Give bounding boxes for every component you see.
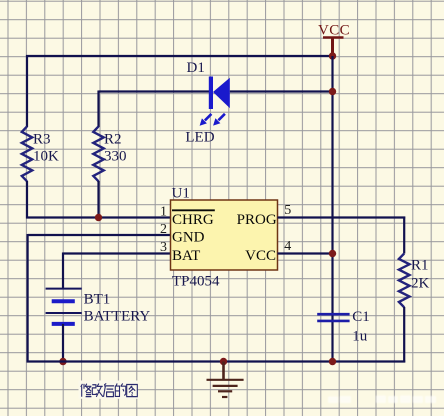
wire R2 column lower [97, 181, 99, 218]
LED arrow 1 [200, 114, 212, 126]
wire R2 column upper [97, 91, 99, 128]
wire pin5 row [278, 216, 406, 218]
svg-text:D1: D1 [187, 60, 205, 76]
svg-text:BATTERY: BATTERY [84, 309, 151, 325]
diode D1 triangle [213, 78, 230, 108]
wire left rail upper [26, 55, 28, 127]
svg-text:R2: R2 [104, 132, 122, 148]
svg-text:3: 3 [160, 240, 167, 255]
svg-text:BAT: BAT [172, 248, 200, 264]
junction battery / bottom rail [59, 358, 66, 365]
resistor R2 [93, 126, 103, 181]
wire pin3 row [63, 252, 171, 254]
wire left column from pin2 to bottom rail [27, 234, 29, 363]
svg-text:VCC: VCC [318, 23, 350, 39]
svg-text:10K: 10K [33, 149, 59, 165]
svg-text:R1: R1 [411, 258, 429, 274]
svg-text:5: 5 [284, 203, 291, 218]
capacitor C1 [317, 314, 349, 321]
svg-text:1: 1 [160, 205, 167, 220]
LED arrow 2 [213, 114, 225, 126]
wire bottom rail [27, 360, 406, 362]
wire R1 column lower [403, 307, 405, 363]
svg-text:330: 330 [104, 149, 127, 165]
svg-text:VCC: VCC [245, 248, 276, 264]
char 图 [127, 385, 138, 397]
wire pin4 row [278, 252, 333, 254]
junction LED row / VCC column [329, 88, 336, 95]
wire left rail lower [26, 181, 28, 219]
svg-text:U1: U1 [172, 186, 190, 202]
wire pin2 row [28, 234, 171, 236]
annotation background box [79, 381, 138, 399]
resistor R3 [22, 126, 32, 181]
svg-text:R3: R3 [33, 132, 51, 148]
char 修 [81, 384, 92, 397]
wire battery column lower [62, 324, 64, 362]
svg-text:2: 2 [160, 222, 167, 237]
svg-text:LED: LED [185, 130, 214, 146]
wire LED row right [230, 90, 334, 92]
svg-text:PROG: PROG [237, 212, 277, 228]
wire R1 column upper [403, 217, 405, 254]
svg-text:4: 4 [284, 239, 291, 254]
diode D1 cathode bar [209, 77, 213, 110]
watermark (white translucent) [328, 396, 436, 404]
svg-text:C1: C1 [352, 309, 370, 325]
wire top rail [26, 55, 334, 57]
junction C1 / bottom rail [329, 358, 336, 365]
battery BT1 [46, 289, 82, 324]
junction ground / bottom rail [220, 358, 227, 365]
svg-text:1u: 1u [352, 329, 368, 345]
wire battery column upper [62, 253, 64, 289]
wire pin1 row [26, 216, 171, 218]
svg-text:BT1: BT1 [84, 292, 111, 308]
VCC power symbol [323, 38, 344, 57]
wire LED row left [99, 90, 210, 92]
svg-text:TP4054: TP4054 [172, 274, 220, 290]
pin name CHRG with overbar [172, 210, 215, 228]
wire VCC column [331, 56, 333, 362]
svg-text:CHRG: CHRG [172, 212, 214, 228]
junction R2/pin1 wire [95, 214, 102, 221]
char 改 [92, 384, 103, 397]
ground symbol [207, 362, 244, 398]
char 后 [104, 383, 115, 396]
annotation text 修改后的图 (drawn strokes) [81, 383, 138, 396]
junction pin4 / VCC column [329, 250, 336, 257]
junction top rail / VCC column [329, 52, 336, 59]
char 的 [115, 383, 126, 396]
resistor R1 [399, 254, 410, 308]
IC U1 body [171, 200, 278, 270]
svg-text:2K: 2K [411, 276, 430, 292]
svg-text:GND: GND [172, 230, 205, 246]
